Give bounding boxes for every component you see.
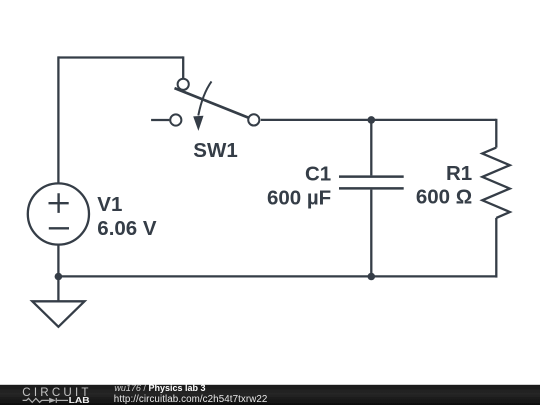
SW1 pin 1 terminal circle — [178, 79, 189, 90]
SW1 lever — [175, 88, 249, 118]
wire R1 top vertical — [495, 119, 497, 148]
svg-text:http://circuitlab.com/c2h54t7t: http://circuitlab.com/c2h54t7txrw22 — [114, 394, 268, 405]
wire R1 bottom vertical — [495, 218, 497, 278]
wire top-left horizontal — [58, 56, 183, 58]
resistor R1 — [416, 148, 510, 218]
voltage source V1 — [28, 183, 157, 244]
node: V1 bottom junction dot — [55, 273, 63, 281]
SW1 pin 2 terminal circle (left, open) — [170, 114, 181, 125]
svg-text:6.06 V: 6.06 V — [97, 217, 157, 240]
wire V1 bottom to ground — [57, 245, 59, 301]
svg-text:wu176 / Physics lab 3: wu176 / Physics lab 3 — [114, 383, 205, 393]
footer logo diode triangle — [49, 398, 56, 403]
wire C1 top vertical — [370, 120, 372, 175]
wire switch left stub — [151, 119, 169, 121]
capacitor C1 — [267, 162, 404, 209]
svg-text:C1: C1 — [305, 162, 331, 185]
footer bar — [0, 385, 540, 405]
SW1 pin 3 terminal circle (right) — [248, 114, 259, 125]
wire switch top drop — [182, 56, 184, 78]
svg-text:600 Ω: 600 Ω — [416, 186, 472, 209]
ground symbol — [32, 301, 84, 327]
V1 plus sign — [49, 193, 69, 213]
wire left vertical — [57, 56, 59, 183]
svg-text:LAB: LAB — [69, 396, 90, 405]
wire C1 bottom vertical — [370, 190, 372, 277]
wire node to R1 corner — [371, 119, 496, 121]
svg-text:600 µF: 600 µF — [267, 186, 331, 209]
wire bottom horizontal — [58, 275, 496, 277]
SW1 arrowhead — [193, 116, 203, 131]
V1 minus sign — [49, 227, 69, 229]
footer logo resistor-diode icon — [23, 398, 68, 403]
C1 top plate — [339, 175, 404, 178]
svg-text:R1: R1 — [446, 162, 472, 185]
SW1 actuation arrow arc — [198, 81, 211, 115]
svg-text:SW1: SW1 — [193, 139, 237, 162]
node: C1 top junction dot — [368, 116, 376, 124]
node: C1 bottom junction dot — [368, 273, 376, 281]
V1 body circle — [28, 183, 89, 244]
R1 zigzag body — [482, 148, 510, 218]
switch SW1 — [170, 79, 259, 162]
wire switch right to node — [261, 119, 372, 121]
C1 bottom plate — [339, 187, 404, 190]
svg-text:V1: V1 — [97, 193, 122, 216]
